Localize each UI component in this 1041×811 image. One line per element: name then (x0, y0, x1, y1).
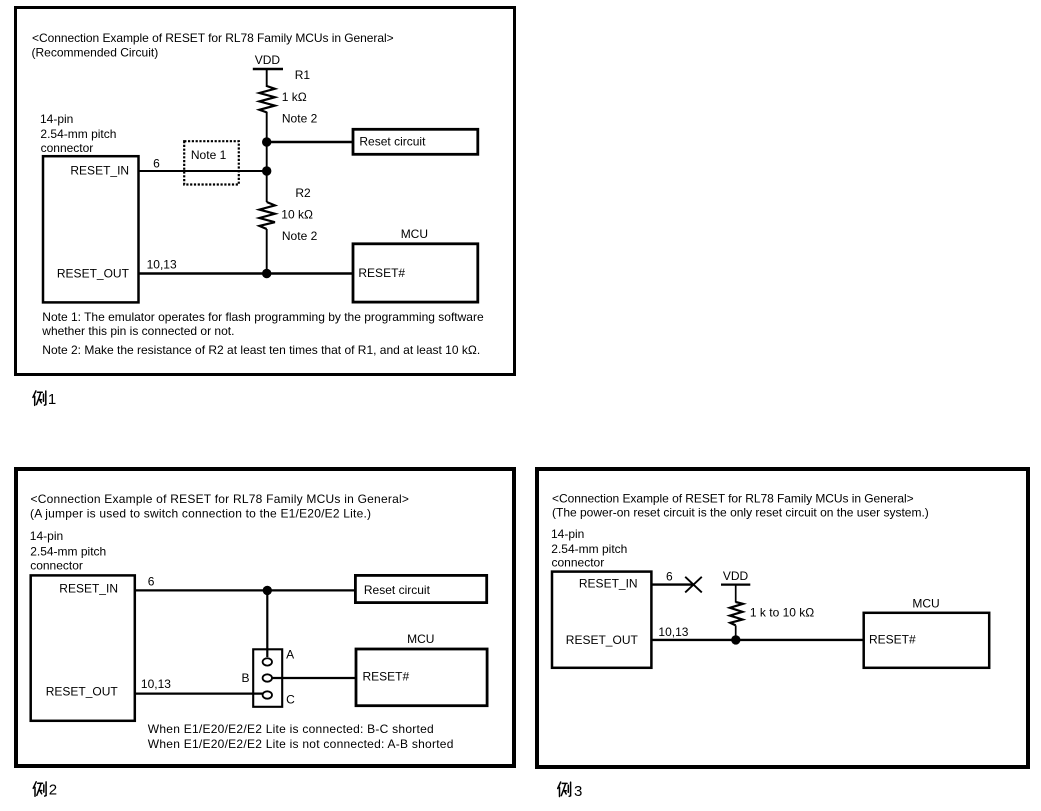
svg-text:Reset circuit: Reset circuit (359, 134, 426, 148)
svg-text:2.54-mm pitch: 2.54-mm pitch (40, 127, 116, 141)
panel 3 title text (552, 492, 929, 520)
wire node A to Reset circuit box (267, 141, 352, 143)
wire connector pin 6 to Reset circuit (136, 589, 356, 591)
svg-text:2: 2 (49, 781, 57, 798)
svg-text:<Connection Example of RESET f: <Connection Example of RESET for RL78 Fa… (31, 492, 410, 506)
svg-text:(A jumper is used to switch co: (A jumper is used to switch connection t… (30, 507, 371, 521)
svg-text:RESET_IN: RESET_IN (59, 581, 118, 595)
svg-text:<Connection Example of RESET f: <Connection Example of RESET for RL78 Fa… (32, 31, 394, 45)
svg-text:1 k to 10 kΩ: 1 k to 10 kΩ (750, 606, 814, 620)
svg-text:When E1/E20/E2/E2 Lite is conn: When E1/E20/E2/E2 Lite is connected: B-C… (148, 722, 434, 736)
no-connection X mark (685, 577, 702, 593)
resistor R3 (1 k to 10 kOhm) (730, 602, 743, 625)
svg-text:MCU: MCU (912, 597, 939, 611)
svg-text:10,13: 10,13 (658, 625, 688, 639)
svg-text:VDD: VDD (255, 53, 281, 67)
svg-text:C: C (286, 693, 295, 707)
wire connector pin 6 (open) (651, 583, 694, 585)
svg-text:R1: R1 (295, 68, 311, 82)
connector J1 label 14-pin 2.54-mm pitch connector (40, 112, 116, 155)
caption Example 1 (rei 1) (33, 391, 56, 408)
MCU box panel 2 (356, 632, 487, 706)
caption Example 2 (rei 2) (33, 781, 57, 798)
junction node D (263, 586, 272, 595)
svg-text:Note 2: Make the resistance of: Note 2: Make the resistance of R2 at lea… (42, 343, 480, 357)
svg-text:6: 6 (148, 574, 155, 588)
connector J3 label 14-pin 2.54-mm pitch connector (551, 527, 627, 570)
power VDD symbol (253, 53, 283, 69)
svg-text:MCU: MCU (407, 632, 434, 646)
svg-text:2.54-mm pitch: 2.54-mm pitch (551, 542, 627, 556)
resistor R2 (259, 202, 275, 229)
svg-text:When E1/E20/E2/E2 Lite is not: When E1/E20/E2/E2 Lite is not connected:… (148, 737, 454, 751)
wire node B to R2 (266, 171, 268, 202)
dashed box Note 1 (184, 141, 239, 184)
wire R2 to node C (266, 229, 268, 274)
wire VDD to R3 (735, 585, 737, 603)
svg-text:1 kΩ: 1 kΩ (282, 90, 307, 104)
MCU box panel 3 (864, 597, 990, 668)
panel 1 title text (32, 31, 394, 59)
svg-text:Reset circuit: Reset circuit (364, 583, 431, 597)
wire connector pin 6 to node B (139, 170, 267, 172)
svg-text:6: 6 (153, 157, 160, 171)
svg-text:B: B (242, 671, 250, 685)
junction node B (262, 166, 271, 175)
wire R3 to node E (735, 625, 737, 640)
panel 2 jumper note text (148, 722, 454, 751)
jumper pin C (263, 691, 272, 698)
svg-text:VDD: VDD (723, 569, 749, 583)
junction node A (262, 137, 271, 146)
svg-text:connector: connector (41, 141, 94, 155)
svg-text:RESET#: RESET# (358, 266, 405, 280)
wire connector pins 10,13 to jumper pin C (136, 692, 263, 694)
svg-text:6: 6 (666, 570, 673, 584)
jumper block (253, 649, 282, 707)
junction node C (262, 269, 271, 278)
wire node D to jumper pin A (266, 590, 268, 657)
resistor R1 (259, 86, 275, 112)
svg-text:RESET#: RESET# (869, 632, 916, 646)
svg-text:RESET#: RESET# (363, 669, 410, 683)
svg-text:10,13: 10,13 (147, 258, 177, 272)
panel 2 title text (30, 492, 409, 521)
wire jumper pin B to MCU RESET# (272, 677, 356, 679)
MCU box (353, 227, 478, 302)
junction node E (731, 635, 740, 644)
svg-text:MCU: MCU (401, 227, 428, 241)
svg-text:connector: connector (552, 556, 605, 570)
Reset circuit box (353, 129, 478, 154)
power VDD symbol panel 3 (721, 569, 750, 585)
svg-text:Note 2: Note 2 (282, 112, 318, 126)
svg-text:whether this pin is connected: whether this pin is connected or not. (41, 324, 234, 338)
connector J2 (14-pin connector box) (31, 575, 135, 720)
wire connector pins 10,13 to MCU RESET# panel 3 (651, 639, 863, 641)
svg-text:2.54-mm pitch: 2.54-mm pitch (30, 545, 106, 559)
svg-text:(The power-on reset circuit is: (The power-on reset circuit is the only … (552, 505, 929, 519)
svg-text:14-pin: 14-pin (551, 527, 584, 541)
svg-text:3: 3 (574, 783, 582, 800)
wire VDD to R1 (266, 69, 268, 87)
svg-text:10,13: 10,13 (141, 677, 171, 691)
svg-text:10 kΩ: 10 kΩ (281, 208, 313, 222)
caption Example 3 (rei 3) (558, 782, 583, 800)
svg-text:14-pin: 14-pin (40, 112, 73, 126)
connector J1 (14-pin connector box) (43, 156, 139, 302)
svg-text:RESET_IN: RESET_IN (579, 576, 638, 590)
svg-text:<Connection Example of RESET f: <Connection Example of RESET for RL78 Fa… (552, 492, 914, 506)
svg-text:Note 2: Note 2 (282, 229, 318, 243)
svg-text:RESET_IN: RESET_IN (70, 163, 129, 177)
jumper pin B (263, 674, 272, 681)
wire node A to node B (266, 142, 268, 171)
connector J2 label 14-pin 2.54-mm pitch connector (30, 529, 106, 572)
svg-text:1: 1 (48, 391, 56, 408)
panel 1 note text (41, 310, 484, 357)
svg-text:14-pin: 14-pin (30, 529, 63, 543)
svg-text:RESET_OUT: RESET_OUT (46, 685, 119, 699)
svg-text:Note 1: Note 1 (191, 148, 227, 162)
svg-text:R2: R2 (295, 186, 311, 200)
connector J3 (14-pin connector box) (552, 572, 651, 668)
wire connector pins 10,13 to MCU RESET# (139, 272, 352, 274)
svg-text:connector: connector (30, 559, 83, 573)
svg-text:Note 1: The emulator operates: Note 1: The emulator operates for flash … (42, 310, 484, 324)
Reset circuit box panel 2 (355, 575, 486, 602)
svg-text:RESET_OUT: RESET_OUT (566, 633, 639, 647)
wire R1 to node A (266, 112, 268, 142)
svg-text:RESET_OUT: RESET_OUT (57, 267, 130, 281)
jumper pin A (263, 658, 272, 665)
svg-text:A: A (286, 647, 294, 661)
svg-text:(Recommended Circuit): (Recommended Circuit) (32, 45, 159, 59)
